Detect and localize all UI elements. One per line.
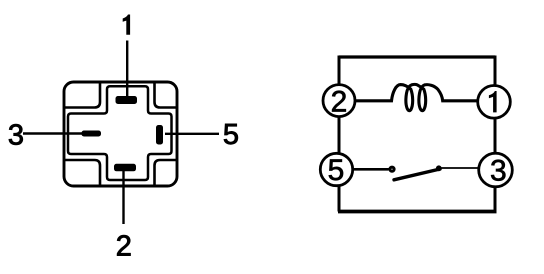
switch blade <box>394 169 440 180</box>
terminal node 5 <box>320 153 352 185</box>
wire right contact to terminal 3 <box>442 167 479 169</box>
leader line pin 5 <box>165 133 219 135</box>
leader line pin 1 <box>126 41 128 100</box>
switch left contact <box>390 167 394 171</box>
terminal label 1 <box>489 91 497 112</box>
cross cavity inner wall <box>68 86 172 180</box>
coil L between terminals 2 and 1 <box>354 84 478 110</box>
svg-text:5: 5 <box>223 119 239 151</box>
svg-text:2: 2 <box>116 230 132 262</box>
wire top (node 2 to node 1) <box>339 55 495 58</box>
switch feed wire from terminal 5 <box>353 168 389 171</box>
wire right side <box>494 56 497 212</box>
terminal node 1 <box>478 86 511 119</box>
relay socket body outline <box>64 82 177 186</box>
leader line pin 3 <box>23 132 88 134</box>
terminal node 2 <box>323 85 355 117</box>
blade pin 2 <box>114 164 136 172</box>
cross cavity outer wall <box>65 83 177 185</box>
svg-text:5: 5 <box>328 154 345 187</box>
svg-text:2: 2 <box>331 85 348 118</box>
wire left side <box>338 56 341 212</box>
blade pin 1 <box>116 96 138 104</box>
pin label 1 <box>123 15 130 35</box>
leader line pin 2 <box>122 168 124 225</box>
blade pin 3 <box>82 131 102 137</box>
wire bottom (node 5 to node 3) <box>338 210 497 214</box>
blade pin 5 <box>156 125 163 145</box>
switch right contact <box>436 165 442 171</box>
terminal node 3 <box>479 153 513 187</box>
svg-text:3: 3 <box>490 155 507 188</box>
svg-text:3: 3 <box>8 119 24 151</box>
